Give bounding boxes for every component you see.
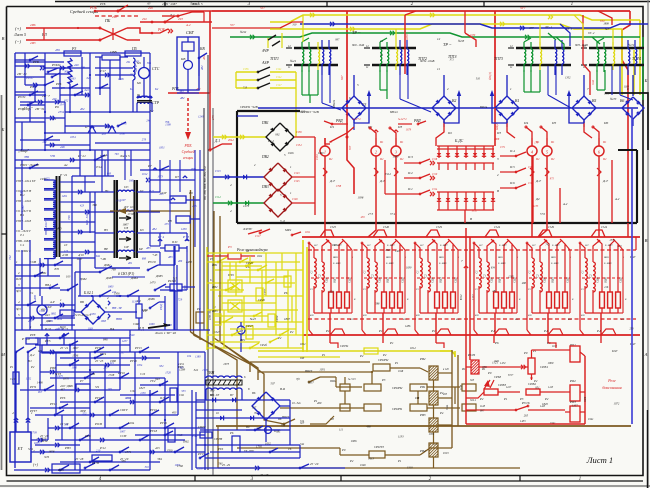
svg-text:103: 103 — [66, 275, 71, 279]
svg-text:628: 628 — [581, 314, 585, 317]
svg-text:1: 1 — [579, 477, 581, 482]
svg-text:293: 293 — [178, 17, 183, 21]
svg-text:ВРБ/24: ВРБ/24 — [333, 99, 336, 108]
red motor field inner dashes — [311, 277, 623, 279]
svg-text:1: 1 — [324, 149, 326, 154]
svg-text:РУ18: РУ18 — [149, 429, 157, 433]
blue bus y116 — [258, 108, 638, 114]
svg-text:С2: С2 — [590, 274, 593, 278]
brown СРПТ3 row — [340, 443, 452, 463]
svg-text:П5: П5 — [551, 121, 556, 125]
svg-text:1139: 1139 — [132, 300, 138, 303]
svg-text:2: 2 — [447, 87, 449, 91]
svg-text:581: 581 — [218, 462, 223, 466]
svg-text:№14+2: №14+2 — [397, 118, 407, 121]
svg-text:1544: 1544 — [494, 225, 501, 229]
svg-text:С1: С1 — [582, 271, 585, 274]
black И arrow near РПЗ — [248, 230, 262, 234]
svg-text:П6: П6 — [603, 121, 608, 125]
switch П4 blade — [523, 121, 532, 138]
svg-text:327: 327 — [300, 422, 305, 425]
svg-text:П4: П4 — [523, 121, 528, 125]
svg-text:1941: 1941 — [588, 418, 594, 421]
red branch y28 — [212, 23, 280, 28]
svg-text:Р0: Р0 — [487, 371, 492, 375]
yellow block labels — [209, 257, 294, 347]
svg-text:1858: 1858 — [48, 450, 55, 454]
svg-text:641: 641 — [85, 89, 90, 92]
svg-text:1948: 1948 — [360, 464, 366, 467]
labels П-6 П-5 — [37, 327, 70, 365]
yellow switch blades — [217, 257, 289, 349]
svg-text:443: 443 — [52, 97, 57, 101]
svg-text:5/9: 5/9 — [95, 385, 99, 389]
svg-text:П.1: П.1 — [407, 187, 413, 191]
svg-text:Д.2: Д.2 — [29, 353, 35, 357]
block СВГ — [177, 30, 199, 90]
svg-text:104: 104 — [187, 355, 192, 358]
svg-text:Б.02.1: Б.02.1 — [83, 291, 94, 295]
switch Д1 right — [209, 139, 234, 151]
svg-text:1433: 1433 — [520, 420, 526, 423]
svg-text:1129: 1129 — [328, 291, 334, 294]
red bus y237 — [302, 225, 640, 237]
switch ПБ — [99, 18, 127, 41]
svg-text:1183: 1183 — [624, 86, 630, 89]
svg-text:+4В: +4В — [100, 257, 106, 261]
switch ДМ1 row — [75, 262, 133, 296]
dark wire bundle vertical — [204, 55, 213, 475]
rectifier В1 — [495, 96, 519, 127]
svg-text:628: 628 — [363, 314, 367, 317]
node П1 П-10 П-9 switches — [15, 117, 150, 133]
svg-text:(+): (+) — [33, 463, 39, 467]
svg-text:ВШ1: ВШ1 — [604, 256, 609, 259]
svg-text:Р1: Р1 — [431, 329, 436, 333]
svg-text:КВ: КВ — [180, 57, 185, 61]
svg-text:Д.Т: Д.Т — [535, 179, 542, 183]
rectifier В6 right edge — [620, 97, 644, 126]
relay РОП hatched — [461, 353, 520, 374]
svg-text:1372: 1372 — [609, 239, 615, 242]
transformer ТПТ2 yellow winding — [396, 42, 398, 70]
svg-text:ВШ1: ВШ1 — [386, 256, 391, 259]
svg-text:П2Т: П2Т — [15, 277, 22, 281]
svg-text:Р1: Р1 — [389, 341, 394, 345]
svg-text:Р1: Р1 — [394, 361, 399, 365]
red dashed rail y319 — [308, 318, 636, 320]
svg-text:7В7: 7В7 — [21, 205, 25, 210]
svg-text:301: 301 — [145, 466, 150, 469]
svg-text:РВ2: РВ2 — [419, 357, 426, 361]
svg-text:1469: 1469 — [318, 151, 324, 155]
svg-text:1760: 1760 — [166, 449, 173, 453]
svg-text:Д.Т: Д.Т — [329, 179, 336, 183]
svg-text:М2: М2 — [136, 81, 141, 85]
svg-text:С1: С1 — [475, 288, 478, 291]
svg-text:1663: 1663 — [70, 77, 76, 80]
vertical wires right of mid block — [174, 246, 187, 330]
wire РПБ horizontal — [168, 87, 210, 93]
svg-text:246: 246 — [146, 120, 151, 123]
svg-text:РУ11: РУ11 — [49, 402, 57, 406]
svg-text:1: 1 — [510, 87, 512, 91]
svg-text:46В: 46В — [33, 295, 37, 300]
svg-text:В.Я: В.Я — [280, 387, 286, 391]
svg-text:С1: С1 — [363, 288, 366, 291]
svg-text:7(0: 7(0 — [296, 378, 300, 381]
battery ЕТ — [10, 432, 39, 467]
svg-text:ВШ1: ВШ1 — [498, 256, 503, 259]
svg-text:РУ15: РУ15 — [134, 346, 142, 350]
svg-text:25−28: 25−28 — [260, 473, 269, 477]
svg-text:ЗУ−1: ЗУ−1 — [566, 28, 573, 31]
svg-text:ВШ1: ВШ1 — [439, 256, 444, 259]
svg-text:567: 567 — [479, 244, 483, 247]
svg-text:СШ2: СШ2 — [620, 276, 623, 282]
yellow right loop — [622, 20, 640, 95]
resistor Р2 vertical — [133, 296, 147, 330]
label АЧР — [261, 33, 282, 53]
svg-text:А.Р: А.Р — [49, 300, 55, 304]
wire РПБ vertical — [202, 11, 210, 93]
svg-text:2: 2 — [375, 149, 378, 154]
svg-text:1705: 1705 — [202, 369, 208, 372]
svg-text:СРБ1: СРБ1 — [540, 365, 548, 369]
svg-text:ВШ6: ВШ6 — [605, 277, 608, 283]
svg-text:ТПТ3: ТПТ3 — [494, 57, 503, 61]
resistor СБТ column — [168, 388, 185, 442]
circle Б terminal — [265, 427, 277, 434]
svg-text:№33: №33 — [457, 39, 465, 43]
svg-text:Р7: Р7 — [147, 164, 152, 168]
top zone ticks and numbers — [165, 2, 573, 8]
svg-text:1913: 1913 — [443, 451, 449, 455]
resistor Р3 red small — [207, 245, 263, 259]
svg-text:СРПН1: СРПН1 — [392, 407, 403, 411]
svg-text:967: 967 — [38, 391, 43, 394]
relay box РВ5 — [52, 461, 99, 473]
rectifier ПВ3 with green feed — [213, 185, 315, 223]
svg-text:(+): (+) — [15, 26, 22, 31]
svg-text:СХ1: СХ1 — [130, 389, 136, 393]
label РУВ2 2В-31 — [17, 105, 65, 114]
svg-text:СШ2: СШ2 — [349, 276, 352, 282]
svg-text:5+6: 5+6 — [540, 212, 546, 216]
svg-text:ТР ~: ТР ~ — [352, 30, 361, 35]
svg-text:715: 715 — [173, 277, 178, 281]
svg-text:12: 12 — [437, 37, 441, 41]
svg-text:ПВ3: ПВ3 — [261, 185, 269, 189]
svg-text:РВ4: РВ4 — [419, 449, 426, 453]
svg-text:293: 293 — [108, 388, 113, 391]
svg-text:ЗП2−1646: ЗП2−1646 — [352, 44, 365, 47]
svg-text:Р2: Р2 — [30, 365, 35, 369]
svg-text:1654: 1654 — [70, 136, 76, 139]
svg-text:1948: 1948 — [398, 370, 404, 373]
svg-text:НА: НА — [109, 327, 114, 331]
svg-text:1000: 1000 — [548, 361, 554, 365]
svg-text:ВРЗ/24: ВРЗ/24 — [390, 111, 398, 114]
svg-text:763: 763 — [115, 153, 120, 156]
svg-text:403: 403 — [443, 393, 448, 396]
svg-text:6: 6 — [244, 375, 246, 379]
svg-text:1526: 1526 — [165, 372, 171, 375]
svg-text:АЗР: АЗР — [261, 60, 269, 65]
svg-text:СШ5: СШ5 — [544, 276, 547, 282]
svg-text:СЕТН: СЕТН — [214, 437, 223, 441]
svg-text:С1: С1 — [529, 271, 532, 274]
svg-text:Реле экономайзера: Реле экономайзера — [236, 247, 268, 252]
svg-text:557: 557 — [260, 6, 265, 10]
svg-text:538: 538 — [64, 423, 69, 426]
red bus y335 — [302, 329, 640, 335]
svg-text:1100: 1100 — [181, 227, 187, 231]
switch РНО block — [165, 279, 195, 291]
svg-text:1807: 1807 — [122, 222, 128, 226]
svg-text:1630: 1630 — [393, 154, 399, 158]
svg-text:П3: П3 — [496, 131, 501, 135]
switch П-28 — [9, 337, 36, 390]
svg-text:КВ: КВ — [199, 47, 205, 51]
svg-text:1926: 1926 — [288, 151, 294, 155]
svg-text:1030: 1030 — [470, 34, 476, 37]
svg-text:1912: 1912 — [142, 173, 148, 176]
svg-text:ДМ5: ДМ5 — [155, 274, 163, 278]
generator СТС — [136, 57, 160, 96]
resistor СРБ2 — [519, 382, 565, 401]
svg-text:№32: №32 — [239, 30, 247, 34]
svg-text:489: 489 — [178, 260, 183, 263]
svg-text:498: 498 — [366, 424, 371, 428]
svg-text:888: 888 — [142, 257, 147, 260]
svg-text:ДМ4: ДМ4 — [130, 276, 138, 280]
svg-text:ТВН: ТВН — [207, 371, 214, 375]
svg-text:1525: 1525 — [330, 225, 337, 229]
bottom-left mesh switches and arrows — [44, 333, 206, 472]
svg-text:25−29: 25−29 — [310, 462, 319, 466]
svg-text:СР26: СР26 — [258, 298, 265, 302]
svg-text:РПБ: РПБ — [184, 144, 193, 148]
svg-text:В7: В7 — [230, 393, 234, 397]
brown diagonals into bottom field — [191, 332, 265, 430]
resistor СОУ Р9 — [150, 191, 200, 208]
svg-text:П3: П3 — [397, 125, 402, 129]
svg-text:К: К — [406, 298, 409, 301]
svg-text:С1: С1 — [581, 288, 584, 291]
motor 1 resistor group — [308, 239, 351, 335]
label ТПТ blocks — [352, 44, 588, 63]
transformer ТПТ3 blue winding — [555, 40, 564, 75]
svg-text:2И6: 2И6 — [30, 23, 36, 27]
svg-text:1882: 1882 — [51, 313, 57, 316]
svg-text:1: 1 — [16, 260, 18, 264]
svg-text:25−21: 25−21 — [60, 346, 69, 350]
svg-text:5: 5 — [357, 83, 359, 87]
svg-text:493: 493 — [179, 91, 184, 94]
bottom zone ticks and numbers — [99, 476, 581, 483]
transformer ТПТ4 blue winding — [628, 40, 637, 75]
svg-text:СОУ: СОУ — [160, 191, 167, 195]
svg-text:Д2: Д2 — [535, 197, 540, 201]
svg-text:483: 483 — [168, 255, 173, 259]
labels СБТТ СЕТН — [197, 425, 231, 467]
switch РУИ2 — [47, 63, 79, 73]
blue mesh fill mid-left — [15, 160, 210, 330]
svg-text:НН−ТР: НН−ТР — [111, 306, 122, 310]
svg-text:1135: 1135 — [533, 205, 539, 208]
svg-text:К2: К2 — [154, 88, 159, 91]
svg-text:1152: 1152 — [26, 378, 32, 381]
svg-text:П.5: П.5 — [509, 165, 515, 169]
svg-text:М: М — [0, 352, 5, 357]
svg-text:Р−21: Р−21 — [77, 154, 86, 158]
traction motor 6 — [594, 138, 607, 163]
svg-text:1319: 1319 — [407, 466, 413, 470]
svg-text:СШ2: СШ2 — [455, 276, 458, 282]
svg-text:0+4Ш7: 0+4Ш7 — [552, 244, 560, 247]
svg-text:1538: 1538 — [296, 131, 302, 134]
svg-text:Р7: Р7 — [79, 379, 84, 383]
svg-text:РВ3: РВ3 — [419, 413, 426, 417]
svg-text:1314: 1314 — [432, 188, 438, 191]
svg-text:ДМ3: ДМ3 — [105, 276, 113, 280]
svg-text:1822: 1822 — [257, 255, 263, 258]
svg-text:Средней: Средней — [182, 149, 195, 154]
svg-text:181: 181 — [492, 290, 497, 293]
red dash top-left extras — [44, 10, 153, 40]
svg-text:ТПТ2−1614 ТР: ТПТ2−1614 ТР — [16, 179, 35, 183]
svg-text:1639: 1639 — [406, 266, 412, 269]
left col vertical tiny labels — [21, 205, 71, 300]
svg-text:РУ8: РУ8 — [29, 333, 36, 337]
brown riser pair B — [214, 211, 220, 342]
svg-text:СБТУ: СБТУ — [120, 408, 129, 412]
svg-text:744: 744 — [8, 255, 12, 260]
svg-text:628: 628 — [416, 314, 420, 317]
svg-text:С/В: С/В — [90, 372, 95, 376]
svg-text:1548: 1548 — [292, 198, 298, 201]
extra black labels left mesh — [19, 165, 158, 331]
arrow СРБ2 fan — [484, 371, 514, 389]
svg-text:Р4: Р4 — [439, 411, 444, 415]
red top bus main — [212, 6, 630, 11]
svg-text:ВШ5: ВШ5 — [552, 277, 555, 283]
svg-text:Р3: Р3 — [209, 257, 214, 261]
switch П4 П5 П6 rows right — [500, 146, 534, 189]
svg-text:1006: 1006 — [351, 439, 357, 443]
brown row СРПН2 middle — [329, 378, 476, 395]
transformer ТПТ1 yellow winding — [318, 42, 320, 70]
svg-text:ОС: ОС — [124, 185, 129, 189]
svg-text:СРПП1−92В: СРПП1−92В — [240, 105, 258, 109]
svg-text:4: 4 — [12, 411, 14, 415]
bottom-left mesh labels — [27, 333, 167, 461]
svg-text:1529: 1529 — [436, 225, 443, 229]
svg-text:997: 997 — [335, 39, 340, 42]
svg-text:Б: Б — [1, 127, 5, 132]
svg-text:+43: +43 — [152, 253, 158, 257]
svg-text:481: 481 — [128, 262, 133, 265]
svg-text:А: А — [644, 352, 648, 357]
svg-text:П.Р: П.Р — [611, 349, 617, 353]
svg-text:ДМ6: ДМ6 — [147, 297, 155, 301]
svg-text:ПУ4: ПУ4 — [99, 352, 106, 356]
black wire №70 corner — [605, 93, 648, 150]
svg-text:1460: 1460 — [55, 227, 62, 231]
transformer ТПТ1 core bars — [270, 48, 338, 65]
switch Д1 top — [162, 12, 204, 17]
svg-text:846: 846 — [103, 338, 108, 342]
motor 3 resistor group — [414, 239, 457, 335]
brown misc stubs — [438, 368, 452, 425]
svg-text:360: 360 — [92, 203, 97, 207]
svg-text:1954: 1954 — [137, 364, 143, 367]
rectifier В4 — [252, 387, 290, 442]
svg-text:2И3: 2И3 — [30, 41, 36, 45]
svg-text:РУ6: РУ6 — [55, 82, 62, 86]
svg-text:1167: 1167 — [572, 403, 578, 407]
svg-text:1900: 1900 — [604, 92, 610, 95]
switch КВ — [198, 47, 207, 76]
svg-text:1261: 1261 — [62, 195, 68, 198]
svg-text:1980: 1980 — [110, 359, 117, 363]
svg-text:628: 628 — [528, 314, 532, 317]
svg-text:1697: 1697 — [72, 346, 79, 350]
svg-text:3: 3 — [497, 157, 499, 161]
node (+) input from sheet 5 — [13, 23, 47, 45]
svg-text:759: 759 — [281, 424, 286, 428]
svg-text:Л.РЗУ: Л.РЗУ — [242, 227, 253, 231]
wire РОБ label — [152, 28, 173, 33]
traction motor 3 — [391, 138, 404, 163]
svg-text:1371: 1371 — [125, 450, 131, 454]
label ТР~ 1 — [352, 30, 384, 57]
svg-text:Т.1: Т.1 — [20, 233, 24, 237]
svg-text:1: 1 — [290, 165, 292, 169]
svg-text:№21: №21 — [289, 59, 297, 63]
svg-text:Р6: Р6 — [54, 105, 59, 109]
svg-text:СР25: СР25 — [246, 261, 253, 265]
brown bus y372 СРПН2 — [258, 354, 428, 373]
extra bottom-left rows — [29, 339, 205, 447]
svg-text:1820: 1820 — [542, 402, 548, 406]
svg-text:5/11: 5/11 — [28, 447, 34, 451]
svg-text:5: 5 — [284, 153, 286, 157]
svg-text:4/1В: 4/1В — [62, 253, 68, 257]
svg-text:В: В — [2, 36, 5, 41]
svg-text:А.2: А.2 — [185, 23, 191, 27]
svg-text:1536: 1536 — [243, 68, 249, 71]
svg-text:СРПН2: СРПН2 — [392, 386, 403, 390]
svg-text:7/4В: 7/4В — [19, 190, 23, 196]
svg-text:1: 1 — [290, 191, 292, 195]
winding ОР with arrow — [95, 245, 160, 260]
svg-text:№70: №70 — [609, 97, 617, 101]
label РПЗ — [242, 227, 270, 238]
svg-text:1458: 1458 — [186, 260, 193, 264]
svg-text:1524: 1524 — [385, 172, 391, 176]
svg-text:0+4Ш2: 0+4Ш2 — [386, 262, 394, 265]
svg-text:78В: 78В — [24, 155, 29, 159]
svg-text:М1: М1 — [379, 141, 383, 144]
traction motor 5 — [542, 138, 555, 163]
svg-text:Р−21: Р−21 — [59, 173, 68, 177]
label ТР~ 2 — [437, 37, 457, 71]
svg-text:4: 4 — [18, 300, 20, 304]
winding stack left bars — [57, 176, 60, 257]
svg-text:Р8: Р8 — [167, 219, 172, 223]
